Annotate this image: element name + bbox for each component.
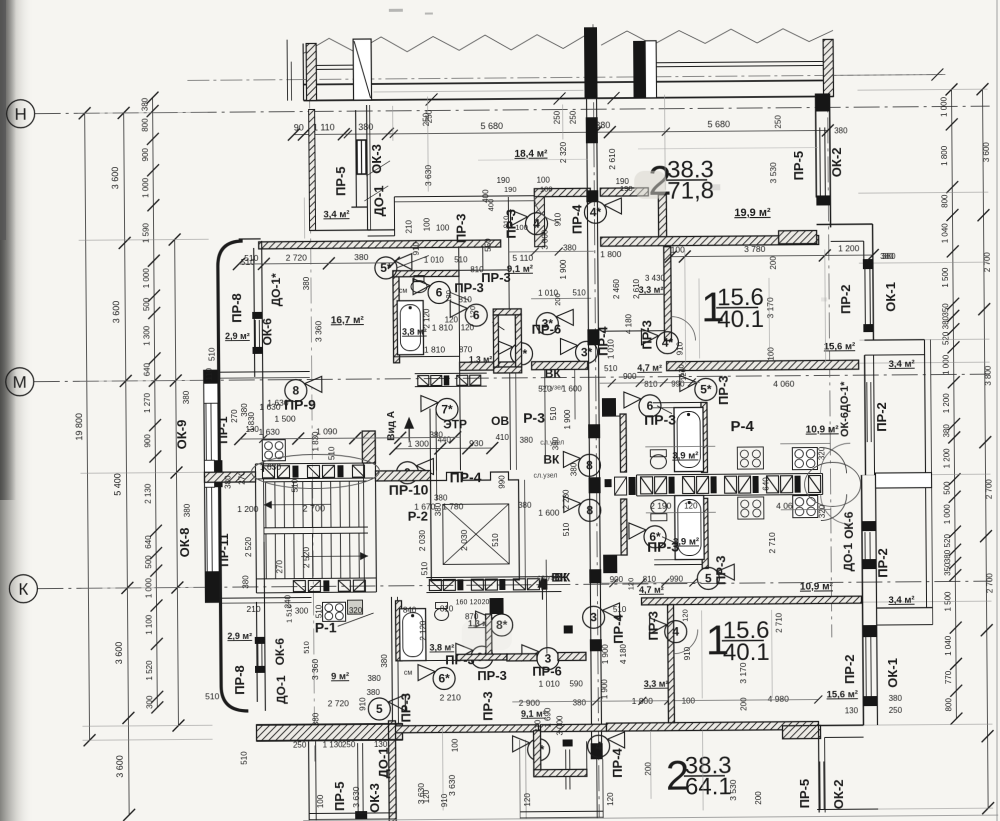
svg-text:380: 380 — [182, 390, 191, 404]
corridor wall below PR-9 — [219, 596, 311, 599]
top right dashdot stub — [833, 73, 945, 76]
left bay outline — [204, 370, 220, 602]
svg-text:510: 510 — [549, 406, 558, 420]
vent blocks left extension — [605, 479, 612, 487]
balcony bottom-left walls — [308, 742, 311, 821]
svg-text:510: 510 — [315, 604, 324, 618]
interior dim row y580 — [601, 581, 701, 584]
svg-text:3,4 м²: 3,4 м² — [323, 209, 349, 220]
svg-text:100: 100 — [767, 347, 776, 361]
svg-text:15,6 м²: 15,6 м² — [824, 341, 855, 352]
svg-text:ДО-1: ДО-1 — [371, 185, 386, 216]
svg-text:2,9 м²: 2,9 м² — [227, 631, 252, 641]
axis wall black seg3 — [587, 329, 599, 345]
tag 5 room1b top — [697, 567, 719, 589]
svg-text:1 900: 1 900 — [601, 644, 610, 665]
window DO-1 OK-6 right mid — [866, 382, 868, 442]
ext vlines top dims — [392, 106, 394, 141]
axis wall black seg7 — [590, 639, 602, 651]
axis line M — [34, 374, 990, 382]
tag 6 kitchen top — [639, 395, 661, 417]
svg-text:1 900: 1 900 — [559, 259, 568, 280]
svg-text:ПР-3: ПР-3 — [453, 213, 468, 243]
svg-text:1 900: 1 900 — [563, 409, 572, 430]
window OK-6 DO-1* top loggia — [252, 312, 262, 319]
stove PR-9 kitchen — [262, 440, 285, 461]
loggia left rounded wall — [218, 241, 249, 711]
tag 3 axis — [583, 606, 605, 628]
svg-text:2 120: 2 120 — [422, 308, 431, 329]
band left whisker — [286, 40, 288, 101]
svg-text:590: 590 — [569, 679, 583, 688]
svg-text:1 110: 1 110 — [313, 122, 335, 132]
tag 6* c — [433, 667, 455, 689]
svg-text:2 900: 2 900 — [519, 698, 541, 708]
svg-text:110: 110 — [205, 367, 214, 380]
top-right corner wall — [815, 94, 818, 198]
window OK-3 top balcony — [357, 140, 366, 174]
stair treads — [265, 482, 267, 528]
svg-text:200: 200 — [739, 697, 748, 711]
oval around center vent row right — [804, 462, 860, 506]
svg-text:3 600: 3 600 — [114, 642, 124, 665]
svg-text:380: 380 — [302, 276, 311, 290]
tag 8 top axis — [578, 454, 600, 476]
column pilaster B — [353, 39, 371, 100]
svg-text:ПР-5: ПР-5 — [332, 781, 347, 811]
loggia top wall — [239, 238, 261, 240]
corridor walls mid2 — [429, 431, 432, 501]
svg-text:990: 990 — [498, 475, 507, 489]
tag 7* — [436, 398, 458, 420]
svg-text:3 170: 3 170 — [765, 297, 775, 319]
svg-text:250: 250 — [569, 110, 578, 124]
tag 6 b — [465, 304, 487, 326]
svg-text:19 800: 19 800 — [74, 413, 84, 441]
interior dim marks B — [239, 263, 394, 264]
balcony bottom-left window — [357, 743, 360, 811]
svg-text:120: 120 — [461, 323, 475, 332]
svg-text:1 010: 1 010 — [606, 339, 615, 360]
interior dim row y444 — [645, 445, 715, 448]
svg-text:ПР-11: ПР-11 — [217, 533, 231, 567]
window OK-9 — [205, 403, 207, 460]
svg-text:640: 640 — [143, 362, 152, 376]
svg-text:1 500: 1 500 — [941, 267, 950, 288]
svg-text:190: 190 — [496, 176, 510, 185]
svg-text:1 040: 1 040 — [944, 635, 953, 656]
extension line right y478 — [861, 474, 991, 475]
room1 south wall — [667, 360, 859, 371]
svg-text:см: см — [404, 670, 413, 677]
svg-text:350: 350 — [943, 562, 952, 576]
svg-text:1 800: 1 800 — [600, 249, 622, 259]
svg-text:3 630: 3 630 — [423, 165, 433, 187]
balcony 3,4 bottom right — [877, 607, 933, 609]
mid wall left hatch — [204, 472, 255, 482]
svg-text:2 710: 2 710 — [767, 532, 777, 554]
svg-text:5 680: 5 680 — [707, 119, 730, 129]
kitchen R-1 stove — [323, 602, 346, 621]
hatch band right of stair — [426, 577, 561, 578]
svg-text:ОК-6: ОК-6 — [273, 638, 287, 666]
svg-text:120: 120 — [523, 793, 532, 807]
svg-text:сл.узел: сл.узел — [540, 439, 564, 446]
svg-text:510: 510 — [562, 522, 571, 536]
svg-text:380: 380 — [183, 503, 192, 517]
svg-text:270: 270 — [237, 471, 246, 485]
svg-text:910: 910 — [675, 341, 684, 355]
svg-text:ПР-3: ПР-3 — [480, 691, 495, 721]
bathtub top-left — [397, 301, 423, 355]
svg-text:840: 840 — [403, 606, 417, 615]
svg-text:2 700: 2 700 — [985, 479, 994, 500]
svg-text:270: 270 — [275, 559, 284, 573]
svg-text:930: 930 — [469, 438, 484, 448]
top band left end — [302, 44, 304, 101]
door arc room1 top — [671, 316, 695, 340]
svg-text:ВК: ВК — [543, 453, 560, 467]
svg-text:3 800: 3 800 — [984, 365, 993, 386]
svg-text:40.1: 40.1 — [717, 306, 764, 333]
svg-text:2 130: 2 130 — [144, 483, 153, 504]
svg-text:640: 640 — [762, 477, 771, 491]
svg-text:210: 210 — [405, 219, 414, 233]
bathtub bottom-left — [400, 609, 426, 661]
svg-text:1 000: 1 000 — [940, 96, 949, 117]
bathtub top center — [674, 407, 704, 471]
bathtub bottom center — [675, 495, 705, 559]
toilet bottom-left2 — [435, 608, 449, 620]
column right-mid — [633, 41, 645, 98]
WC box walls — [493, 309, 521, 315]
svg-text:870: 870 — [459, 345, 473, 354]
window OK-8 — [206, 487, 209, 571]
svg-text:250: 250 — [553, 110, 562, 124]
stair top squares — [262, 466, 274, 478]
kitchen bottom walls — [702, 498, 709, 568]
tag 6* kitchen bottom — [644, 526, 666, 548]
step wall right top — [779, 231, 817, 244]
tag 8* center — [510, 343, 532, 365]
svg-text:510: 510 — [205, 691, 220, 701]
svg-text:550: 550 — [484, 238, 493, 252]
dim chain left C — [153, 98, 158, 708]
svg-text:200: 200 — [769, 256, 778, 270]
svg-text:1 040: 1 040 — [941, 223, 950, 244]
svg-text:2 520: 2 520 — [244, 536, 253, 557]
svg-text:4: 4 — [672, 625, 679, 639]
svg-text:120: 120 — [684, 501, 698, 510]
svg-text:380: 380 — [563, 243, 577, 252]
VK wall bar bottom b — [558, 652, 586, 660]
svg-text:сл.узел: сл.узел — [534, 473, 558, 480]
vent row outline — [637, 473, 823, 474]
svg-text:сл.узел: сл.узел — [541, 384, 565, 391]
tag 3 bottom — [537, 648, 559, 670]
svg-text:380: 380 — [241, 575, 250, 589]
svg-text:4 060: 4 060 — [773, 379, 795, 389]
svg-text:ПР-3: ПР-3 — [454, 280, 484, 295]
svg-text:1 800: 1 800 — [940, 145, 949, 166]
svg-text:100: 100 — [451, 738, 460, 752]
svg-text:100: 100 — [540, 185, 553, 194]
stove bottom center — [793, 496, 818, 518]
bottom right corner walls — [818, 724, 863, 726]
north wall upper left part — [534, 188, 590, 196]
svg-text:ПР-8: ПР-8 — [232, 665, 247, 695]
axis wall black seg6 — [589, 569, 601, 583]
svg-text:3 780: 3 780 — [744, 244, 766, 254]
svg-text:1 200: 1 200 — [942, 448, 951, 469]
svg-text:770: 770 — [944, 670, 953, 684]
window OK-1 bottom right — [865, 637, 867, 696]
balcony br bottom edge — [817, 808, 878, 810]
svg-text:90: 90 — [294, 123, 304, 133]
svg-text:5 110: 5 110 — [512, 253, 533, 263]
svg-text:380: 380 — [941, 315, 950, 329]
loggia inner wall x255 — [254, 248, 255, 377]
wall right of R-1 — [391, 597, 392, 725]
svg-text:510: 510 — [420, 561, 429, 575]
extension line right y93 — [857, 89, 987, 90]
svg-text:ОК-3: ОК-3 — [367, 783, 382, 813]
kitchen top walls — [701, 402, 708, 472]
svg-text:910: 910 — [358, 697, 367, 711]
interior dim row y511 — [646, 511, 716, 514]
tag 8 bot axis — [579, 499, 601, 521]
svg-text:ПР-2: ПР-2 — [842, 654, 857, 684]
svg-text:ПР-4: ПР-4 — [611, 613, 626, 643]
svg-text:120: 120 — [681, 609, 690, 622]
svg-text:ОК-1: ОК-1 — [885, 658, 900, 688]
axis wall lines — [587, 98, 592, 759]
scan speckles — [389, 5, 827, 304]
svg-text:3 600: 3 600 — [115, 755, 125, 778]
svg-text:1 810: 1 810 — [432, 322, 454, 332]
north wall right of axis — [601, 235, 819, 246]
south wall right — [606, 722, 818, 732]
svg-text:910: 910 — [683, 646, 692, 660]
ext vline x306b — [303, 198, 305, 239]
VK wall bar right — [532, 361, 588, 369]
top band inner line — [373, 90, 583, 92]
svg-text:4: 4 — [533, 217, 540, 231]
window DO-1 OK-6 bottom loggia — [255, 637, 265, 644]
toilet top center — [650, 455, 666, 469]
svg-text:6: 6 — [647, 399, 654, 413]
window DO-1 OK-6 bottom right — [864, 532, 866, 559]
svg-text:380: 380 — [367, 688, 381, 697]
svg-text:190: 190 — [504, 185, 517, 194]
svg-text:120: 120 — [422, 789, 431, 803]
svg-text:3 530: 3 530 — [768, 162, 778, 184]
axis wall black seg5 — [589, 477, 601, 493]
tag 4* room1 — [656, 332, 678, 354]
svg-text:2 120: 2 120 — [419, 620, 428, 641]
svg-text:ДО-1: ДО-1 — [376, 747, 391, 778]
ext horizontals top room — [638, 147, 818, 148]
bottom center door marks — [563, 739, 573, 746]
svg-text:8: 8 — [586, 503, 593, 517]
svg-text:1 630: 1 630 — [260, 462, 282, 472]
svg-text:300: 300 — [295, 607, 309, 616]
wall vest x430 — [429, 409, 431, 471]
vertical axis dashdot x596 — [593, 24, 599, 817]
svg-text:ПР-3: ПР-3 — [713, 555, 728, 585]
svg-text:1 000: 1 000 — [942, 354, 951, 375]
svg-text:ПР-2: ПР-2 — [875, 548, 890, 578]
svg-text:300: 300 — [145, 695, 154, 709]
vid A bottom arrow — [537, 576, 547, 588]
svg-text:380: 380 — [889, 694, 903, 703]
svg-text:2 190: 2 190 — [650, 501, 672, 511]
axis wall black seg8 — [591, 743, 603, 759]
axis line H — [35, 106, 990, 114]
svg-text:910: 910 — [501, 216, 510, 229]
svg-text:100: 100 — [436, 223, 450, 232]
svg-text:500: 500 — [142, 297, 151, 311]
svg-text:130: 130 — [845, 706, 859, 715]
tag 8* bottom — [491, 614, 513, 636]
svg-text:ПР-4: ПР-4 — [610, 747, 625, 777]
extension line left y723 — [82, 725, 212, 726]
extension line left y737 — [83, 739, 213, 740]
svg-text:3,3 м²: 3,3 м² — [644, 679, 669, 689]
svg-text:190: 190 — [620, 184, 633, 193]
svg-text:510: 510 — [244, 253, 259, 263]
shaft corridor walls — [518, 480, 521, 580]
svg-text:510: 510 — [491, 533, 500, 547]
south wall left edge lines — [256, 724, 402, 725]
stair top hatch band — [255, 462, 375, 465]
svg-text:100: 100 — [422, 217, 431, 231]
svg-text:100: 100 — [536, 176, 550, 185]
top band dashdot y78 — [187, 74, 945, 80]
extension line left y470 — [80, 472, 210, 473]
svg-text:3,8 м²: 3,8 м² — [429, 642, 454, 652]
svg-text:4 180: 4 180 — [619, 643, 628, 664]
extension line right y605 — [862, 601, 992, 602]
svg-text:380: 380 — [880, 252, 894, 261]
column center axis — [584, 27, 598, 98]
svg-text:2 720: 2 720 — [286, 253, 308, 263]
svg-text:19,9 м²: 19,9 м² — [734, 207, 771, 219]
svg-text:250: 250 — [422, 112, 431, 126]
svg-text:520: 520 — [941, 331, 950, 345]
vent row left-center — [415, 372, 487, 375]
svg-text:6: 6 — [436, 285, 443, 299]
svg-text:7*: 7* — [441, 402, 453, 416]
svg-text:810: 810 — [470, 265, 484, 274]
svg-text:380: 380 — [569, 462, 578, 476]
svg-text:900: 900 — [141, 147, 150, 161]
svg-text:2 720: 2 720 — [328, 698, 350, 708]
svg-text:2 320: 2 320 — [558, 142, 568, 164]
svg-text:ДО-1: ДО-1 — [841, 543, 855, 572]
svg-text:380: 380 — [573, 698, 587, 707]
right scan edge — [996, 0, 998, 821]
tag 6 a — [428, 281, 450, 303]
top band upper wall line — [303, 80, 833, 84]
svg-text:Р-3: Р-3 — [523, 410, 545, 426]
svg-text:380: 380 — [367, 674, 381, 683]
svg-text:ВК: ВК — [551, 570, 568, 584]
svg-text:2 030: 2 030 — [459, 529, 469, 551]
svg-text:ПР-3: ПР-3 — [477, 668, 507, 683]
extension line right y812 — [863, 808, 993, 809]
svg-text:ДО-1: ДО-1 — [274, 675, 288, 704]
svg-text:ПР-1: ПР-1 — [216, 416, 230, 444]
svg-text:2 610: 2 610 — [607, 148, 617, 170]
svg-text:1 600: 1 600 — [562, 384, 583, 393]
svg-text:510: 510 — [302, 641, 311, 654]
stair right wall — [363, 463, 364, 592]
svg-text:ПР-2: ПР-2 — [838, 284, 853, 314]
svg-text:1 630: 1 630 — [267, 398, 289, 408]
svg-text:Н: Н — [14, 105, 26, 124]
tag 5* top-left — [375, 257, 397, 279]
porch walls bottom center — [534, 731, 541, 776]
door jamb square bottom — [564, 625, 573, 633]
stair bottom squares — [293, 581, 305, 592]
svg-text:380: 380 — [141, 97, 150, 111]
svg-text:810: 810 — [644, 380, 658, 389]
svg-text:ПР-4: ПР-4 — [450, 469, 482, 485]
svg-text:ПР-6: ПР-6 — [532, 664, 562, 679]
svg-text:1 270: 1 270 — [143, 392, 152, 413]
vent block row center — [641, 477, 653, 494]
svg-text:3: 3 — [590, 610, 597, 624]
svg-text:200: 200 — [754, 791, 763, 805]
tag 3* b — [575, 341, 597, 363]
sink pair bottom — [738, 497, 764, 519]
svg-text:3,9 м²: 3,9 м² — [673, 536, 699, 547]
svg-text:М: М — [13, 373, 27, 392]
svg-text:380: 380 — [354, 252, 369, 262]
wall connector x660 — [658, 195, 666, 240]
svg-text:2,9 м²: 2,9 м² — [225, 331, 250, 341]
svg-text:2 210: 2 210 — [440, 692, 462, 702]
VK shaft verticals bottom — [545, 560, 548, 654]
svg-text:810: 810 — [440, 604, 454, 613]
gray blotch 2 — [462, 620, 512, 650]
bath bottom walls — [395, 601, 401, 661]
dim ticks top wall — [390, 130, 398, 138]
svg-text:120: 120 — [470, 599, 482, 606]
svg-text:800: 800 — [940, 194, 949, 208]
svg-text:1 830: 1 830 — [247, 411, 256, 432]
tag 9 — [396, 462, 418, 484]
svg-text:2 710: 2 710 — [775, 612, 784, 633]
svg-text:3 360: 3 360 — [313, 320, 323, 342]
svg-text:3 360: 3 360 — [310, 659, 320, 681]
door arc room1 bottom — [674, 629, 698, 653]
south wall mid — [394, 725, 538, 733]
svg-text:Вид А: Вид А — [386, 411, 397, 441]
svg-text:5 680: 5 680 — [480, 121, 503, 131]
svg-text:ПР-3: ПР-3 — [644, 412, 676, 428]
vest partition — [601, 330, 664, 332]
svg-text:520: 520 — [943, 533, 952, 547]
stove top center — [792, 448, 817, 470]
svg-text:250: 250 — [293, 741, 307, 750]
svg-text:1 000: 1 000 — [142, 268, 151, 289]
extension line left y110 — [78, 112, 208, 113]
svg-text:2 700: 2 700 — [302, 503, 325, 513]
window OK-1 right — [864, 267, 866, 325]
leader lines tags — [397, 256, 429, 268]
